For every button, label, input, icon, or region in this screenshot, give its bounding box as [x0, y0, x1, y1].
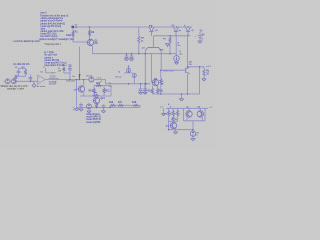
svg-text:2m: 2m — [178, 45, 181, 47]
svg-text:vdrive_nd2: vdrive_nd2 — [163, 69, 174, 72]
flag above wire — [168, 104, 171, 108]
svg-text:2N: 2N — [94, 42, 97, 45]
svg-text:R13: R13 — [96, 83, 101, 85]
cap C5 node stub — [22, 67, 32, 81]
resistor R21 — [174, 108, 179, 121]
power flag Vcc — [72, 24, 79, 29]
svg-text:x: x — [31, 80, 32, 82]
comp x96.5 — [96, 104, 98, 108]
wire q12 emitter — [173, 128, 177, 134]
svg-text:rail 12V: rail 12V — [49, 82, 57, 85]
svg-text:R15: R15 — [105, 90, 110, 92]
behavioral source B1 — [32, 81, 46, 88]
RC rails — [16, 68, 26, 76]
wire q10 legs — [95, 96, 97, 104]
svg-text:.param gain=21 fc=15k: .param gain=21 fc=15k — [40, 30, 64, 33]
svg-text:.tran 5: .tran 5 — [40, 12, 47, 15]
svg-text:R11: R11 — [159, 90, 164, 92]
wire long mid y53.7 — [93, 53, 177, 55]
wire drop x89.5 — [89, 27, 91, 39]
resistor R19 — [163, 108, 169, 129]
svg-text:.meas vpp PP V(out): .meas vpp PP V(out) — [40, 25, 61, 28]
svg-text:4m: 4m — [179, 53, 182, 55]
resistor R7 — [163, 36, 171, 54]
wire x76 gnd — [73, 107, 79, 111]
svg-text:.four 1kHz V(out): .four 1kHz V(out) — [40, 35, 58, 38]
resistor R1 — [66, 31, 78, 37]
svg-text:out22: out22 — [206, 65, 212, 68]
capacitor C6 — [143, 84, 147, 95]
transistor Q1 — [87, 39, 98, 45]
gnd left — [161, 108, 165, 116]
svg-text:2m: 2m — [72, 76, 75, 78]
svg-text:V6 0.1: V6 0.1 — [86, 76, 93, 78]
ground on loop — [179, 94, 183, 101]
feedback C1 — [15, 67, 21, 76]
svg-text:.param x: .param x — [44, 56, 54, 59]
transistor Q12 — [166, 122, 177, 128]
wire y85.5 — [94, 85, 111, 87]
svg-text:5W: 5W — [58, 70, 61, 72]
twin transistor Qa — [184, 107, 193, 121]
capacitor C3 to ground — [129, 54, 133, 61]
wire dome right leg — [160, 50, 162, 70]
svg-text:cartridge + cable: cartridge + cable — [7, 87, 25, 90]
voltage source V1 — [5, 79, 10, 84]
gray text under line — [66, 80, 76, 82]
transistor Q4 (rail left) — [149, 25, 159, 36]
wire y107.5 — [76, 107, 140, 109]
wire y83.8 — [106, 82, 151, 88]
wire y120.8 frame — [184, 120, 206, 122]
voltage source V2 — [11, 79, 16, 84]
cap C8 — [101, 104, 105, 113]
svg-text:Transient sim of the amp v2: Transient sim of the amp v2 — [40, 14, 69, 17]
resistor R15 — [103, 86, 110, 97]
svg-text:9V: 9V — [202, 35, 205, 37]
tiny label at node — [31, 80, 32, 82]
twin transistor Qb — [197, 107, 205, 121]
net label vmid — [97, 77, 104, 83]
source V5 — [190, 130, 199, 141]
wire second rail y36 — [154, 35, 191, 37]
resistor R17 — [118, 102, 133, 106]
svg-text:.options numdgt=7 measdgt=7 pl: .options numdgt=7 measdgt=7 plot — [39, 38, 75, 41]
resistor Rq10e — [95, 104, 97, 108]
svg-text:R17: R17 — [118, 102, 123, 104]
flag above V2 — [15, 75, 17, 76]
svg-text:+ vntol=1u abstol=1p reltol: + vntol=1u abstol=1p reltol — [13, 40, 40, 43]
source V4 — [87, 104, 92, 113]
resistor R11 — [156, 85, 163, 94]
cap C7 — [79, 103, 83, 112]
feedback R4 — [22, 67, 27, 76]
series source V6 on line — [86, 76, 106, 83]
svg-text:C1 100n R4 47k: C1 100n R4 47k — [13, 64, 30, 66]
current source I2 stack — [115, 65, 136, 84]
svg-text:220u 16V: 220u 16V — [66, 80, 76, 82]
mid column comp B ref cap — [64, 65, 72, 80]
wire out node — [188, 65, 212, 68]
resistor R9 feedback — [154, 70, 162, 94]
svg-text:.meas AVG V(o): .meas AVG V(o) — [40, 33, 57, 36]
wire dome left leg — [144, 50, 146, 94]
svg-text:.model Q2N55: .model Q2N55 — [86, 122, 102, 124]
svg-text:R14: R14 — [89, 90, 94, 92]
wire drop to y83.8 — [105, 80, 107, 84]
opamp name labels — [50, 73, 57, 78]
svg-text:2N: 2N — [161, 84, 164, 86]
wire opamp out — [45, 79, 89, 81]
resistor R8 drop — [138, 27, 145, 54]
svg-text:R10: R10 — [147, 90, 152, 92]
transistor Q8 — [186, 62, 193, 74]
op-amp U1 — [38, 72, 46, 85]
transistor Q5 — [152, 79, 164, 85]
wire y108.3 — [166, 106, 213, 109]
capacitor C5 — [138, 84, 142, 95]
spice text block T2 — [44, 52, 67, 67]
svg-text:x: x — [179, 113, 180, 115]
current source I1 — [174, 43, 183, 65]
source value text T5 — [1, 85, 29, 91]
wire x176 rail2 to mid wire — [175, 36, 177, 54]
svg-text:Q10: Q10 — [100, 98, 105, 100]
wire top V+ rail — [72, 26, 192, 28]
transistor Q6 (rail mid) — [172, 25, 182, 36]
resistor Rload — [202, 67, 210, 81]
flag near dome — [165, 44, 170, 48]
svg-text:R18: R18 — [132, 102, 137, 104]
wire x76.5 vertical — [77, 80, 79, 108]
wire y129.7 — [169, 129, 194, 131]
wire y121.3 — [169, 120, 178, 122]
wire x187.5 down — [187, 35, 189, 67]
svg-text:Rc: Rc — [63, 65, 66, 67]
wire input — [4, 80, 38, 82]
svg-text:.lib op07.sub: .lib op07.sub — [44, 55, 58, 57]
model text block T4 — [86, 114, 102, 124]
cap C0 left — [14, 76, 18, 81]
wire x111 — [110, 86, 112, 97]
svg-text:nq: nq — [109, 82, 111, 84]
voltage source V3 battery — [195, 31, 205, 44]
transistor Q10 — [93, 97, 105, 103]
resistor R20 + R20b — [170, 108, 177, 121]
wire Q9 collector — [83, 80, 85, 96]
wire drop x73 — [73, 27, 87, 42]
svg-text:.param Vcc=24 Rld=8: .param Vcc=24 Rld=8 — [40, 20, 63, 23]
junction dots — [72, 26, 200, 130]
svg-text:100k: 100k — [66, 34, 72, 37]
capacitor C2 to ground — [124, 54, 128, 61]
transistor Q9 — [74, 86, 85, 92]
wire Q8 base + net label — [161, 69, 186, 72]
wire Q8 emitter down — [187, 74, 189, 94]
spice directive text block T1 — [13, 12, 75, 47]
resistor on y96 wire — [93, 92, 100, 96]
resistor R18 — [132, 102, 140, 107]
resistor R2 — [88, 30, 95, 36]
wire Q1 collector down — [92, 46, 94, 54]
svg-text:R16: R16 — [109, 102, 114, 104]
opamp blue labels — [49, 78, 60, 85]
input RC network label — [13, 64, 30, 66]
resistor R16 — [109, 102, 118, 107]
svg-text:OP27: OP27 — [50, 73, 56, 75]
svg-text:Rz: Rz — [175, 119, 177, 121]
mid column comp A — [58, 65, 65, 73]
wire bottom loop y94 — [153, 67, 200, 94]
wire y96 — [80, 95, 111, 97]
resistor R10 — [147, 86, 153, 95]
svg-text:out: out — [160, 106, 163, 109]
wire Q5 base column — [152, 54, 153, 83]
svg-text:47u x2: 47u x2 — [115, 77, 122, 79]
svg-text:* bias loop info x: * bias loop info x — [44, 44, 62, 46]
net label out2 — [160, 106, 163, 109]
transistor Q7 (rail right) — [184, 25, 195, 36]
opamp V+ pin wire — [43, 66, 50, 72]
resistor R13 — [96, 83, 102, 87]
transistor pair Q3 dome — [142, 36, 164, 52]
resistor R14 — [89, 86, 96, 97]
branch x79.4 vertical — [72, 47, 81, 80]
svg-text:2N: 2N — [189, 64, 192, 66]
svg-text:B1 sense: B1 sense — [37, 86, 47, 88]
junction dots input — [15, 79, 80, 82]
wire x193 — [192, 121, 194, 130]
